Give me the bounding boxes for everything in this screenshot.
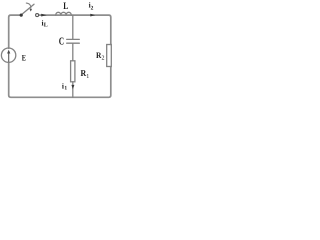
svg-text:L: L	[63, 1, 68, 12]
svg-text:C: C	[59, 36, 64, 47]
svg-text:1: 1	[64, 86, 67, 92]
svg-text:2: 2	[102, 55, 105, 61]
svg-text:1: 1	[86, 74, 89, 80]
svg-text:E: E	[22, 53, 26, 63]
svg-text:2: 2	[91, 5, 94, 11]
svg-text:L: L	[44, 23, 48, 29]
